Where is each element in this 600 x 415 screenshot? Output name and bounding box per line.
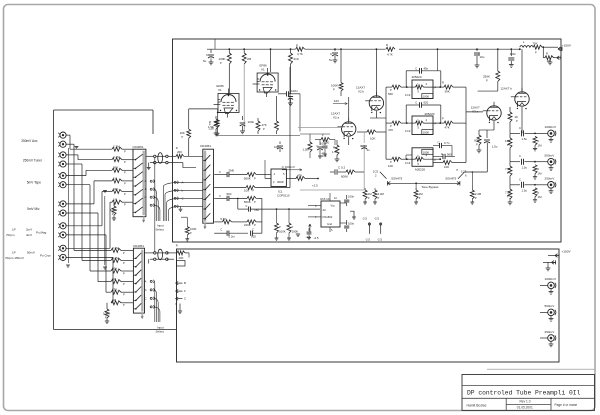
- svg-text:C: C: [330, 52, 332, 56]
- svg-text:P: P: [123, 303, 125, 307]
- svg-text:219: 219: [294, 57, 299, 61]
- svg-text:45n: 45n: [424, 67, 429, 71]
- svg-text:C: C: [317, 145, 319, 148]
- svg-text:560K: 560K: [244, 200, 251, 204]
- svg-text:SGN475: SGN475: [391, 176, 402, 180]
- svg-text:10K: 10K: [444, 165, 449, 169]
- svg-text:100K: 100K: [292, 230, 299, 234]
- svg-text:5u: 5u: [329, 58, 333, 62]
- svg-text:Page # or name: Page # or name: [555, 403, 578, 407]
- svg-text:-2.5: -2.5: [377, 238, 382, 242]
- svg-text:C: C: [415, 67, 417, 71]
- svg-text:47K: 47K: [388, 128, 393, 132]
- svg-text:70rpm: 70rpm: [6, 233, 15, 237]
- svg-text:R: R: [546, 51, 548, 55]
- svg-text:Tone Bypass: Tone Bypass: [421, 185, 439, 189]
- svg-text:560: 560: [227, 192, 232, 196]
- svg-text:C: C: [415, 101, 417, 105]
- svg-text:Rev 1.0: Rev 1.0: [520, 400, 531, 404]
- svg-text:1M: 1M: [538, 195, 543, 199]
- svg-text:R: R: [442, 81, 444, 85]
- svg-text:100K: 100K: [219, 57, 226, 61]
- svg-text:250mV Aux: 250mV Aux: [21, 139, 38, 143]
- svg-text:560: 560: [447, 152, 452, 156]
- svg-text:100n: 100n: [510, 52, 517, 56]
- svg-text:2M0: 2M0: [229, 168, 235, 172]
- svg-text:47K: 47K: [445, 126, 450, 130]
- svg-text:P: P: [123, 271, 125, 275]
- svg-text:405220: 405220: [412, 75, 422, 79]
- svg-text:4,7K: 4,7K: [297, 52, 303, 56]
- svg-text:C: C: [219, 194, 221, 198]
- svg-text:P: P: [486, 79, 488, 83]
- svg-text:C: C: [246, 204, 248, 208]
- svg-text:1C5: 1C5: [373, 170, 379, 174]
- svg-text:47K: 47K: [262, 123, 267, 127]
- svg-text:R: R: [386, 43, 388, 47]
- svg-text:Select: Select: [156, 330, 165, 334]
- svg-text:P: P: [123, 282, 125, 286]
- svg-text:P: P: [516, 119, 518, 123]
- svg-text:V2 a: V2 a: [333, 116, 340, 120]
- svg-text:P: P: [124, 192, 126, 196]
- svg-text:100n: 100n: [291, 89, 298, 93]
- svg-text:P: P: [476, 143, 478, 147]
- svg-text:-2.5: -2.5: [374, 217, 379, 221]
- svg-text:100: 100: [547, 59, 552, 63]
- svg-text:R: R: [176, 244, 178, 248]
- svg-text:1C3: 1C3: [405, 129, 411, 133]
- svg-text:3C5 10: 3C5 10: [320, 197, 330, 201]
- svg-text:820: 820: [251, 235, 256, 239]
- svg-text:l= 100 mV: l= 100 mV: [282, 165, 295, 169]
- svg-text:P: P: [123, 261, 125, 265]
- svg-text:P: P: [124, 203, 126, 207]
- svg-text:+150V: +150V: [562, 250, 572, 254]
- svg-text:100K: 100K: [190, 227, 197, 231]
- svg-text:70rpm 150mV: 70rpm 150mV: [5, 256, 24, 260]
- svg-text:-2.5: -2.5: [314, 236, 319, 240]
- svg-text:10K: 10K: [388, 164, 393, 168]
- svg-text:100n: 100n: [348, 222, 355, 226]
- svg-text:V2 b: V2 b: [358, 90, 365, 94]
- svg-text:56K: 56K: [388, 92, 393, 96]
- svg-text:SGN475: SGN475: [445, 176, 456, 180]
- svg-text:100K: 100K: [279, 230, 286, 234]
- svg-text:1M: 1M: [368, 192, 373, 196]
- svg-text:C: C: [519, 126, 521, 130]
- svg-text:C: C: [184, 297, 186, 301]
- svg-text:C: C: [144, 195, 146, 199]
- svg-text:1M: 1M: [538, 143, 543, 147]
- svg-text:20K: 20K: [179, 256, 184, 260]
- svg-text:620: 620: [424, 101, 429, 105]
- svg-text:500mV: 500mV: [545, 304, 556, 308]
- svg-text:P: P: [254, 223, 256, 227]
- svg-text:C: C: [519, 154, 521, 158]
- svg-text:1000mV: 1000mV: [545, 125, 557, 129]
- svg-text:500mV: 500mV: [545, 154, 556, 158]
- svg-text:1K: 1K: [514, 115, 518, 119]
- svg-text:100K: 100K: [331, 84, 338, 88]
- svg-text:0.2m: 0.2m: [229, 234, 236, 238]
- svg-text:COP5110: COP5110: [277, 194, 290, 198]
- svg-text:100K: 100K: [423, 95, 430, 99]
- svg-text:DS1802: DS1802: [323, 215, 333, 219]
- svg-text:1,5u: 1,5u: [522, 166, 528, 170]
- svg-text:Hamit Bozlac: Hamit Bozlac: [467, 403, 487, 407]
- svg-text:10u: 10u: [480, 55, 485, 59]
- svg-text:75K: 75K: [533, 41, 538, 45]
- svg-text:+150V: +150V: [562, 44, 572, 48]
- svg-text:560K: 560K: [244, 176, 251, 180]
- svg-text:-2.5: -2.5: [365, 238, 370, 242]
- svg-text:2,3M: 2,3M: [475, 192, 482, 196]
- svg-text:P: P: [442, 117, 444, 121]
- svg-text:P: P: [254, 176, 256, 180]
- svg-text:600K: 600K: [341, 175, 348, 179]
- svg-text:P: P: [124, 171, 126, 175]
- svg-text:12AX7 b: 12AX7 b: [500, 87, 512, 91]
- svg-text:250K: 250K: [483, 75, 490, 79]
- svg-text:C: C: [220, 228, 222, 232]
- svg-text:4,7K: 4,7K: [387, 53, 393, 57]
- svg-text:220K: 220K: [244, 223, 251, 227]
- svg-text:CD4051: CD4051: [200, 144, 211, 148]
- svg-text:P: P: [182, 135, 184, 139]
- svg-text:CD4051: CD4051: [133, 145, 144, 149]
- svg-text:P: P: [253, 189, 255, 193]
- svg-text:1C4: 1C4: [405, 161, 411, 165]
- svg-text:P: P: [263, 127, 265, 131]
- svg-text:1000mV: 1000mV: [545, 277, 557, 281]
- svg-text:C: C: [441, 152, 443, 156]
- svg-text:39K: 39K: [445, 90, 450, 94]
- svg-text:10K: 10K: [370, 137, 375, 141]
- svg-text:DP controled Tube Preampli 0Il: DP controled Tube Preampli 0Il: [467, 389, 581, 396]
- svg-text:250mV Tuner: 250mV Tuner: [23, 159, 43, 163]
- svg-text:2M: 2M: [247, 57, 252, 61]
- svg-text:2mV: 2mV: [26, 228, 32, 232]
- svg-text:P: P: [124, 160, 126, 164]
- svg-text:50mV: 50mV: [27, 251, 35, 255]
- svg-text:405220: 405220: [424, 112, 434, 116]
- svg-text:Select: Select: [156, 228, 165, 232]
- svg-text:A: A: [145, 179, 147, 183]
- svg-text:3,3M: 3,3M: [378, 192, 385, 196]
- svg-text:10K: 10K: [180, 131, 185, 135]
- svg-text:4mV: 4mV: [26, 233, 32, 237]
- svg-text:5mV Tape: 5mV Tape: [27, 181, 42, 185]
- svg-text:0.7n: 0.7n: [444, 141, 450, 145]
- svg-text:5mV Mic: 5mV Mic: [27, 207, 40, 211]
- svg-text:V1: V1: [218, 88, 222, 92]
- svg-text:100n: 100n: [248, 120, 255, 124]
- svg-text:V3 a: V3 a: [472, 110, 479, 114]
- svg-text:1C2: 1C2: [405, 93, 411, 97]
- svg-text:-2.5: -2.5: [362, 217, 367, 221]
- svg-text:A05220: A05220: [415, 168, 426, 172]
- svg-text:LP: LP: [12, 251, 16, 255]
- svg-text:100n: 100n: [348, 195, 355, 199]
- svg-text:Vcc: Vcc: [331, 204, 336, 208]
- svg-text:P: P: [124, 150, 126, 154]
- svg-text:+2.5: +2.5: [312, 184, 318, 188]
- svg-text:C: C: [144, 296, 146, 300]
- svg-text:P: P: [123, 251, 125, 255]
- svg-text:3u: 3u: [367, 148, 371, 152]
- svg-text:C: C: [219, 170, 221, 174]
- svg-text:250mV: 250mV: [545, 177, 556, 181]
- svg-text:300K: 300K: [277, 180, 284, 184]
- svg-text:P: P: [124, 181, 126, 185]
- svg-text:1,5u: 1,5u: [522, 137, 528, 141]
- svg-text:LP: LP: [12, 228, 16, 232]
- svg-text:100K: 100K: [423, 131, 430, 135]
- svg-text:P: P: [254, 200, 256, 204]
- svg-text:B: B: [184, 281, 186, 285]
- svg-text:150: 150: [254, 208, 259, 212]
- svg-text:Pu Mag: Pu Mag: [36, 231, 47, 235]
- svg-text:Gnd: Gnd: [327, 222, 332, 226]
- svg-text:42V: 42V: [334, 99, 339, 103]
- svg-text:1,5K: 1,5K: [208, 126, 214, 130]
- svg-text:P: P: [220, 61, 222, 65]
- svg-text:100n: 100n: [320, 141, 327, 145]
- svg-text:P: P: [123, 293, 125, 297]
- svg-text:100: 100: [244, 189, 249, 193]
- svg-text:Pu Crys: Pu Crys: [40, 254, 51, 258]
- svg-text:47K: 47K: [322, 154, 327, 158]
- svg-text:CD4051: CD4051: [133, 244, 144, 248]
- svg-text:V1: V1: [261, 68, 265, 72]
- svg-text:P: P: [333, 88, 335, 92]
- svg-text:1,5u: 1,5u: [492, 145, 498, 149]
- svg-text:5u: 5u: [203, 59, 207, 63]
- svg-text:C: C: [252, 228, 254, 232]
- svg-text:A: A: [145, 279, 147, 283]
- svg-text:1M: 1M: [419, 192, 424, 196]
- svg-text:C 0.2: C 0.2: [338, 166, 346, 170]
- svg-text:250mV: 250mV: [545, 330, 556, 334]
- svg-text:C: C: [519, 177, 521, 181]
- svg-text:1,5u: 1,5u: [522, 189, 528, 193]
- svg-text:01.05.2001: 01.05.2001: [517, 406, 533, 410]
- svg-text:A0: A0: [323, 208, 327, 212]
- svg-text:1M: 1M: [538, 172, 543, 176]
- svg-text:R: R: [333, 146, 335, 150]
